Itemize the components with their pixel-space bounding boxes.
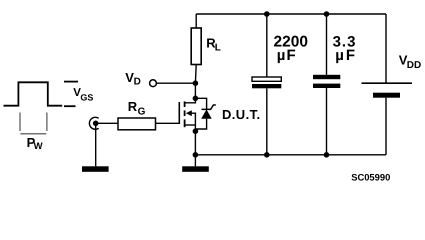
wire terminal to RG bbox=[96, 122, 118, 124]
ground (source) bbox=[182, 166, 209, 172]
resistor RG bbox=[118, 118, 156, 130]
svg-text:G: G bbox=[138, 107, 146, 118]
pulse width bracket PW bbox=[19, 113, 21, 132]
ground (input) bbox=[82, 166, 109, 172]
channel segment middle bbox=[184, 110, 186, 116]
source stub bbox=[186, 124, 196, 126]
node top rail C1 bbox=[264, 11, 270, 17]
wire bottom rail bbox=[195, 154, 386, 156]
terminal VD bbox=[150, 80, 157, 87]
wire source down to rail bbox=[194, 131, 196, 166]
wire down to C2 bbox=[326, 14, 328, 75]
label 2200 uF bbox=[274, 33, 308, 63]
svg-text:µF: µF bbox=[335, 47, 357, 64]
drain stub bbox=[186, 98, 196, 103]
svg-text:SC05990: SC05990 bbox=[351, 172, 390, 183]
pulse base level dash bbox=[64, 105, 76, 107]
battery VDD bbox=[362, 83, 413, 98]
node bottom rail source bbox=[193, 152, 199, 158]
node VD junction bbox=[193, 80, 199, 86]
node bottom rail C1 bbox=[264, 152, 270, 158]
channel segment bottom bbox=[184, 119, 186, 127]
svg-text:D.U.T.: D.U.T. bbox=[222, 107, 261, 122]
channel segment top bbox=[184, 101, 186, 107]
svg-text:µF: µF bbox=[277, 47, 297, 64]
wire down to battery bbox=[385, 14, 387, 83]
label RL bbox=[206, 36, 221, 54]
body stub bbox=[191, 113, 195, 131]
gate bar bbox=[178, 102, 180, 124]
label 3.3 uF bbox=[333, 33, 357, 63]
body arrow bbox=[186, 110, 192, 116]
capacitor C2 3.3uF bbox=[313, 75, 340, 88]
wire RL to VD node bbox=[194, 65, 197, 84]
wire top rail bbox=[196, 13, 386, 15]
label VD bbox=[125, 70, 141, 88]
label VDD bbox=[399, 52, 421, 71]
transistor D.U.T. (MOSFET) bbox=[179, 98, 195, 131]
input terminal (coax connector) bbox=[89, 117, 98, 129]
wire C2 to bottom rail bbox=[326, 88, 328, 155]
node bottom rail C2 bbox=[324, 152, 330, 158]
resistor RL bbox=[191, 28, 201, 65]
label PW bbox=[27, 135, 43, 152]
wire top rail to RL bbox=[195, 14, 197, 28]
wire terminal down to ground bbox=[95, 125, 97, 166]
wire VD node to drain bbox=[194, 83, 196, 98]
svg-text:R: R bbox=[128, 99, 138, 114]
svg-text:L: L bbox=[215, 43, 221, 54]
wire battery to bottom rail bbox=[385, 98, 387, 155]
node drain junction bbox=[193, 96, 199, 102]
pulse top level dash bbox=[64, 81, 78, 83]
wire VD terminal to node bbox=[156, 82, 195, 84]
pulse waveform VGS bbox=[4, 82, 63, 105]
capacitor C1 2200uF bbox=[252, 77, 281, 88]
body diode bbox=[195, 98, 215, 129]
svg-text:W: W bbox=[34, 141, 43, 152]
node top rail C2 bbox=[324, 11, 330, 17]
wire C1 to bottom rail bbox=[266, 88, 268, 155]
svg-text:GS: GS bbox=[80, 92, 93, 102]
svg-text:DD: DD bbox=[407, 60, 421, 71]
wire down to C1 bbox=[266, 14, 268, 77]
label RG bbox=[128, 99, 146, 118]
wire RG to gate bbox=[156, 122, 180, 124]
label VGS bbox=[73, 87, 93, 103]
node source junction bbox=[193, 128, 199, 134]
svg-text:D: D bbox=[134, 77, 141, 88]
